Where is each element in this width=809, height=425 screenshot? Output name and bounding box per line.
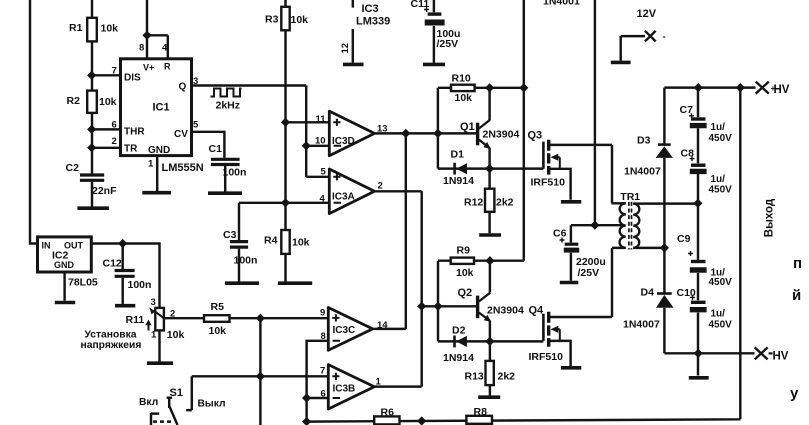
svg-text:CV: CV xyxy=(174,129,188,140)
svg-text:Q3: Q3 xyxy=(528,130,543,142)
svg-text:C11: C11 xyxy=(411,0,430,10)
svg-text:1u/: 1u/ xyxy=(711,174,726,185)
svg-text:1u/: 1u/ xyxy=(711,122,726,133)
svg-text:C1: C1 xyxy=(209,143,223,155)
svg-text:13: 13 xyxy=(377,124,388,135)
svg-text:10k: 10k xyxy=(291,14,309,26)
svg-text:R5: R5 xyxy=(211,301,225,313)
svg-text:11: 11 xyxy=(316,114,327,125)
svg-text:5: 5 xyxy=(193,120,199,131)
svg-text:IRF510: IRF510 xyxy=(531,177,566,189)
svg-text:10k: 10k xyxy=(101,23,119,35)
svg-text:R10: R10 xyxy=(452,73,471,85)
svg-text:450V: 450V xyxy=(709,277,733,288)
svg-text:IC1: IC1 xyxy=(153,102,170,114)
svg-text:D1: D1 xyxy=(451,149,465,161)
svg-text:2: 2 xyxy=(112,136,117,147)
svg-text:R: R xyxy=(164,62,171,72)
svg-text:3: 3 xyxy=(193,76,198,87)
svg-text:Выкл: Выкл xyxy=(198,398,226,409)
svg-text:/25V: /25V xyxy=(578,267,600,279)
svg-text:Q2: Q2 xyxy=(458,287,473,299)
svg-text:C2: C2 xyxy=(66,162,80,174)
svg-text:R1: R1 xyxy=(69,22,83,34)
svg-text:R4: R4 xyxy=(264,235,278,247)
svg-text:6: 6 xyxy=(321,388,326,399)
svg-text:+: + xyxy=(771,84,776,93)
svg-text:1: 1 xyxy=(376,377,382,388)
svg-text:IC3D: IC3D xyxy=(332,136,355,147)
svg-text:C3: C3 xyxy=(223,229,237,241)
svg-text:TR1: TR1 xyxy=(620,191,640,203)
svg-text:C6: C6 xyxy=(553,228,567,240)
svg-text:1N914: 1N914 xyxy=(443,352,474,364)
svg-text:6: 6 xyxy=(112,120,117,131)
svg-text:100n: 100n xyxy=(234,255,258,267)
svg-text:2k2: 2k2 xyxy=(498,371,516,383)
svg-text:100n: 100n xyxy=(128,279,152,291)
svg-text:R13: R13 xyxy=(465,371,484,383)
svg-text:D2: D2 xyxy=(452,325,466,337)
svg-text:й: й xyxy=(792,287,801,304)
svg-text:Выход: Выход xyxy=(764,198,776,237)
svg-text:R8: R8 xyxy=(474,406,488,418)
svg-text:GND: GND xyxy=(148,145,170,156)
svg-text:D3: D3 xyxy=(637,135,651,147)
svg-text:V+: V+ xyxy=(143,63,154,73)
svg-text:78L05: 78L05 xyxy=(68,277,98,289)
svg-text:10: 10 xyxy=(315,136,326,147)
svg-text:IC3: IC3 xyxy=(362,3,379,15)
svg-text:R11: R11 xyxy=(126,314,145,326)
svg-text:450V: 450V xyxy=(709,320,733,331)
svg-text:100n: 100n xyxy=(223,167,247,179)
svg-text:10k: 10k xyxy=(456,267,474,279)
svg-text:2k2: 2k2 xyxy=(496,197,514,209)
svg-text:10k: 10k xyxy=(209,325,227,337)
svg-text:4: 4 xyxy=(320,193,326,204)
svg-text:1N4007: 1N4007 xyxy=(623,319,660,331)
svg-text:/25V: /25V xyxy=(437,38,459,50)
svg-text:GND: GND xyxy=(54,260,75,270)
svg-text:5: 5 xyxy=(321,166,327,177)
svg-text:8: 8 xyxy=(139,43,144,54)
svg-text:2: 2 xyxy=(378,180,383,191)
svg-text:9: 9 xyxy=(320,307,325,318)
svg-text:10k: 10k xyxy=(455,92,473,104)
svg-text:C9: C9 xyxy=(677,233,691,245)
svg-text:LM339: LM339 xyxy=(356,16,390,28)
svg-text:1N4007: 1N4007 xyxy=(624,166,661,178)
svg-text:R6: R6 xyxy=(381,407,395,419)
svg-text:D4: D4 xyxy=(641,287,655,299)
svg-text:Q: Q xyxy=(179,82,187,93)
svg-text:IN: IN xyxy=(42,241,51,251)
svg-text:1N914: 1N914 xyxy=(443,175,474,187)
svg-text:HV: HV xyxy=(773,351,789,363)
svg-text:IRF510: IRF510 xyxy=(529,351,564,363)
svg-text:12V: 12V xyxy=(637,8,657,20)
svg-text:IC3A: IC3A xyxy=(332,191,355,202)
svg-text:напряжкеия: напряжкеия xyxy=(81,340,142,351)
svg-text:3: 3 xyxy=(151,297,156,308)
svg-text:14: 14 xyxy=(377,320,388,331)
svg-text:R2: R2 xyxy=(67,95,81,107)
svg-text:7: 7 xyxy=(320,365,325,376)
svg-text:TR: TR xyxy=(124,144,138,155)
svg-text:R9: R9 xyxy=(457,244,471,256)
svg-text:Вкл: Вкл xyxy=(139,397,158,408)
svg-text:2kHz: 2kHz xyxy=(216,100,241,112)
svg-text:2N3904: 2N3904 xyxy=(483,129,520,141)
svg-text:2N3904: 2N3904 xyxy=(487,305,524,317)
svg-text:R3: R3 xyxy=(265,14,279,26)
svg-text:S1: S1 xyxy=(170,387,183,399)
svg-text:1N4001: 1N4001 xyxy=(543,0,580,8)
svg-text:450V: 450V xyxy=(709,185,733,196)
svg-text:IC3C: IC3C xyxy=(333,325,356,336)
svg-text:C10: C10 xyxy=(677,287,696,299)
svg-text:C7: C7 xyxy=(680,104,694,116)
svg-text:10k: 10k xyxy=(292,237,310,249)
svg-text:IC2: IC2 xyxy=(52,250,69,262)
svg-text:2: 2 xyxy=(170,308,175,319)
svg-text:HV: HV xyxy=(774,84,790,96)
svg-text:22nF: 22nF xyxy=(92,185,117,197)
svg-text:7: 7 xyxy=(112,66,117,77)
svg-text:1: 1 xyxy=(148,159,154,170)
svg-text:12: 12 xyxy=(340,43,351,54)
svg-text:IC3B: IC3B xyxy=(333,384,356,395)
svg-text:LM555N: LM555N xyxy=(162,162,204,174)
svg-text:п: п xyxy=(793,255,802,272)
svg-text:Q1: Q1 xyxy=(460,121,475,133)
svg-text:Q4: Q4 xyxy=(529,305,545,317)
svg-text:THR: THR xyxy=(124,127,145,138)
svg-text:10k: 10k xyxy=(167,329,185,341)
svg-text:450V: 450V xyxy=(709,133,733,144)
svg-text:10k: 10k xyxy=(99,96,117,108)
svg-text:R12: R12 xyxy=(464,197,483,209)
svg-text:1u/: 1u/ xyxy=(711,309,726,320)
svg-text:8: 8 xyxy=(321,331,326,342)
svg-text:-: - xyxy=(663,32,666,43)
svg-text:C8: C8 xyxy=(681,148,695,160)
svg-text:1: 1 xyxy=(151,329,157,340)
svg-text:у: у xyxy=(790,385,799,402)
svg-text:C12: C12 xyxy=(103,258,122,270)
svg-text:DIS: DIS xyxy=(124,73,141,84)
svg-text:4: 4 xyxy=(162,43,168,54)
